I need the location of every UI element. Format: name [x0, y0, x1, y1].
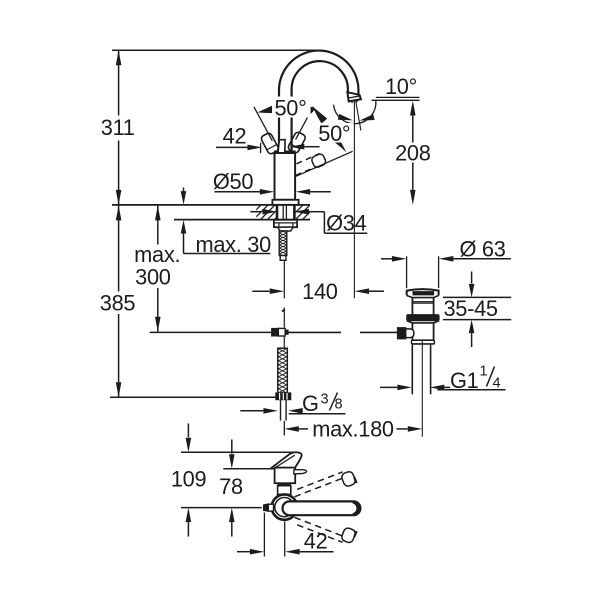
handle stem (solid, up position)	[278, 140, 285, 152]
top view spout inner line	[275, 455, 295, 468]
top view lever blade	[294, 470, 307, 474]
fan line left (handle swing)	[254, 107, 272, 141]
dim Ø34: line arrows and leader	[250, 211, 262, 213]
svg-text:G1: G1	[450, 368, 479, 393]
svg-text:50°: 50°	[318, 121, 350, 146]
dim 42 line and arrows	[237, 551, 250, 553]
drain side knob white part	[406, 329, 414, 338]
top view: lever front reference line	[223, 468, 294, 470]
dim G1 1/4 arrows	[380, 386, 397, 388]
rod below junction	[283, 336, 285, 348]
top view body black band	[278, 483, 291, 486]
G3/8 hose nut	[276, 393, 291, 400]
pop-up rod horizontal right segment	[360, 331, 397, 333]
arrow down 385 bottom	[116, 382, 122, 397]
deck hatch left	[246, 204, 290, 220]
50 deg #2 arrowheads	[313, 107, 327, 124]
svg-text:Ø50: Ø50	[213, 169, 253, 194]
svg-text:1: 1	[480, 364, 488, 380]
dim 109 arrows	[187, 424, 189, 438]
mounting nut	[274, 220, 297, 227]
svg-text:max. 30: max. 30	[195, 232, 271, 257]
10 deg reference lines	[376, 96, 420, 98]
nozzle vertical reference line	[353, 101, 355, 298]
svg-text:35-45: 35-45	[443, 296, 497, 321]
svg-text:385: 385	[100, 291, 136, 316]
hose end pipe	[280, 400, 282, 421]
dim 78 arrows	[231, 440, 233, 454]
top view pull rod knob	[264, 504, 269, 511]
arrow up 385 top	[116, 205, 122, 220]
svg-text:78: 78	[219, 474, 243, 499]
dim 311/385 vertical line	[118, 50, 120, 115]
svg-text:140: 140	[302, 279, 338, 304]
dim 208 vertical	[412, 116, 414, 143]
drain flange (black)	[407, 315, 439, 321]
nozzle tilted axis line	[356, 101, 361, 131]
faucet body	[275, 153, 296, 200]
dim 140	[252, 290, 269, 292]
top view neck	[278, 486, 291, 495]
arrow down max300 bottom	[155, 317, 161, 332]
svg-text:109: 109	[171, 466, 207, 491]
drain centerline	[421, 341, 423, 437]
faucet centerline	[284, 141, 286, 200]
drain tailpipe	[411, 344, 413, 394]
drain body	[412, 323, 433, 340]
max180 left extension	[283, 421, 285, 436]
text white backings	[272, 97, 311, 118]
top view body circle outer	[272, 494, 297, 519]
drain neck taper	[407, 296, 439, 298]
mounting shank through deck	[276, 205, 279, 220]
G1 1/4 underline	[437, 389, 505, 391]
body top thick edge	[274, 150, 296, 153]
arrow down 311 bottom	[116, 190, 122, 205]
lever down end cap	[311, 153, 327, 169]
arrow up max300 top	[155, 205, 161, 220]
top view body	[275, 468, 296, 484]
50 deg arc arrowheads top	[257, 105, 274, 114]
spout arc inner	[292, 61, 348, 153]
Ø63 extension lines	[406, 256, 408, 288]
pull rod upper segment	[283, 260, 285, 298]
svg-text:Ø 63: Ø 63	[459, 237, 505, 262]
arrow up 311 top	[116, 50, 122, 65]
fan line right (handle swing)	[296, 107, 314, 140]
deck top line	[112, 204, 310, 206]
lower dashed end cap	[341, 527, 357, 544]
threaded stud	[279, 231, 287, 256]
upper dashed end cap	[341, 470, 357, 487]
max30 text underline	[184, 253, 271, 255]
drain body bottom joint	[412, 339, 435, 341]
top reference line (spout top level)	[112, 49, 320, 51]
svg-text:10°: 10°	[385, 74, 417, 99]
dim Ø63	[381, 258, 392, 260]
svg-text:3: 3	[321, 392, 329, 408]
svg-text:50°: 50°	[274, 95, 306, 120]
385 bottom reference line	[110, 396, 276, 398]
deck bottom line	[174, 219, 310, 221]
lever down dashed tube	[296, 154, 320, 176]
rod junction block	[272, 328, 279, 336]
dim max180	[284, 426, 299, 432]
body base plate	[272, 200, 298, 205]
top view: center axis reference line	[181, 507, 262, 509]
drain pop-up waste: cap	[407, 289, 439, 295]
svg-text:42: 42	[223, 124, 247, 149]
svg-text:8: 8	[335, 397, 343, 413]
drain side knob black	[397, 328, 405, 339]
dim G3/8 arrows	[240, 410, 263, 412]
pull rod in shank	[282, 205, 284, 220]
dim 42 handle: line and arrows	[216, 146, 248, 148]
top view lever solid	[283, 501, 361, 515]
svg-text:max.: max.	[134, 242, 180, 267]
top view: spout tip reference line	[181, 451, 296, 453]
svg-text:max.180: max.180	[312, 417, 394, 442]
spout nozzle	[347, 92, 361, 101]
35-45 arrows	[471, 272, 473, 284]
svg-text:Ø34: Ø34	[326, 211, 366, 236]
top view dashed lever lower	[295, 517, 345, 542]
dim max300 vertical line	[157, 205, 159, 244]
lever down axis line	[295, 151, 353, 177]
svg-text:G: G	[302, 391, 319, 416]
svg-text:42: 42	[304, 528, 328, 553]
supply hose braided	[278, 348, 288, 393]
handle knob right (phantom position)	[287, 131, 306, 154]
washer cone	[278, 227, 294, 231]
G3/8 underline	[289, 413, 346, 415]
svg-text:300: 300	[135, 264, 171, 289]
deck hatch right	[288, 204, 325, 220]
lever right cap thick	[353, 502, 358, 515]
10 deg arc	[334, 100, 376, 124]
max300 bottom reference line	[150, 331, 272, 333]
top view body circle inner	[275, 498, 294, 517]
handle knob left (phantom position)	[260, 132, 279, 155]
dim 42 extension lines	[263, 513, 265, 557]
svg-text:208: 208	[395, 141, 431, 166]
spout arc outer	[279, 51, 358, 153]
pop-up rod horizontal	[285, 331, 341, 333]
top view dashed lever upper	[295, 472, 345, 497]
svg-text:311: 311	[101, 115, 135, 140]
top view spout	[271, 452, 302, 468]
dim max30 top arrow	[183, 188, 185, 195]
10 deg arrowheads	[338, 114, 353, 121]
drain neck	[412, 298, 433, 315]
drain cap seal band	[413, 292, 434, 295]
dim 35-45 reference lines	[443, 296, 511, 298]
pull rod lower segment	[283, 308, 285, 328]
dim Ø50: underline and arrows	[215, 191, 260, 193]
svg-text:4: 4	[493, 376, 501, 392]
dim max30 bottom arrow	[181, 220, 187, 234]
flange lower taper	[407, 321, 439, 323]
rod break mark	[282, 309, 285, 311]
stud tip	[280, 256, 286, 261]
